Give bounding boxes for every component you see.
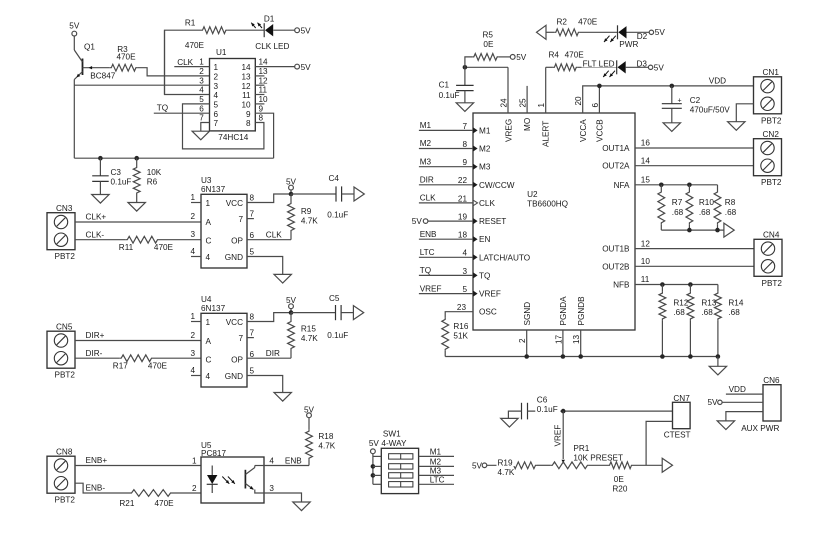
svg-text:CLK: CLK: [479, 199, 495, 208]
svg-text:11: 11: [242, 91, 251, 100]
resistor R10 .68: [686, 185, 714, 230]
svg-text:5V: 5V: [69, 21, 80, 30]
wire: [75, 340, 201, 342]
pin 15 NFA: [614, 176, 651, 190]
svg-text:CLK: CLK: [177, 58, 193, 67]
svg-text:6: 6: [250, 350, 255, 359]
svg-text:DIR+: DIR+: [86, 331, 105, 340]
resistor R15 4.7K: [288, 313, 319, 359]
resistor R7 .68: [658, 185, 684, 230]
node junction: [578, 354, 583, 359]
node junction: [670, 84, 675, 89]
svg-text:M1: M1: [430, 448, 442, 457]
wire: [580, 330, 582, 357]
capacitor C3 0.1uF: [92, 168, 131, 187]
wire: [671, 108, 673, 123]
ground: [128, 203, 145, 212]
svg-text:18: 18: [458, 231, 468, 240]
svg-text:6: 6: [591, 103, 600, 108]
svg-text:ENB: ENB: [285, 456, 302, 465]
svg-text:U2: U2: [527, 190, 538, 199]
svg-text:8: 8: [246, 119, 251, 128]
svg-text:PC817: PC817: [201, 449, 226, 458]
svg-text:CTEST: CTEST: [664, 430, 691, 439]
svg-text:VCCA: VCCA: [579, 119, 588, 142]
svg-text:OP: OP: [231, 355, 243, 364]
svg-text:2: 2: [214, 73, 219, 82]
wire pin8 to 5V: [247, 313, 291, 322]
wire: [419, 148, 473, 150]
power 5V: [371, 449, 376, 454]
pin 18: [458, 231, 478, 243]
wire: [527, 410, 672, 412]
svg-text:51K: 51K: [453, 331, 468, 340]
svg-text:PR1: PR1: [573, 444, 589, 453]
svg-text:PBT2: PBT2: [55, 371, 76, 380]
svg-text:AUX PWR: AUX PWR: [741, 424, 779, 433]
wire pin4 stub: [191, 375, 201, 377]
resistor R9 4.7K: [288, 194, 319, 240]
svg-text:M1: M1: [479, 126, 491, 135]
svg-text:2: 2: [190, 212, 195, 221]
wire: [255, 103, 264, 105]
power 5V: [649, 28, 665, 37]
svg-text:5V: 5V: [286, 178, 297, 187]
svg-text:3: 3: [199, 76, 204, 85]
wire: [201, 123, 210, 132]
svg-text:PBT2: PBT2: [761, 116, 782, 125]
svg-text:NFA: NFA: [614, 181, 630, 190]
svg-text:CLK+: CLK+: [86, 213, 107, 222]
svg-text:M2: M2: [430, 458, 442, 467]
svg-text:C5: C5: [329, 294, 340, 303]
pin 25 MO: [519, 98, 533, 131]
svg-text:23: 23: [457, 303, 467, 312]
pin 3: [462, 267, 477, 279]
resistor R21 470E: [119, 490, 174, 508]
connector CN3 PBT2: [47, 204, 75, 261]
wire: [419, 184, 473, 186]
svg-text:PBT2: PBT2: [55, 496, 76, 505]
svg-text:5: 5: [214, 101, 219, 110]
node junction: [597, 84, 602, 89]
svg-text:3: 3: [269, 484, 274, 493]
node DIR out: [266, 349, 280, 358]
svg-text:0E: 0E: [483, 40, 494, 49]
svg-text:CN1: CN1: [763, 68, 780, 77]
node junction: [688, 282, 693, 287]
svg-text:M2: M2: [479, 145, 491, 154]
svg-text:EN: EN: [479, 235, 490, 244]
wire pin4 stub: [191, 256, 201, 258]
port out: [353, 306, 363, 320]
wire: [273, 29, 295, 31]
wire: [646, 421, 672, 465]
svg-text:6: 6: [214, 110, 219, 119]
svg-text:5V: 5V: [655, 28, 666, 37]
pin 23 OSC: [457, 303, 497, 317]
label EN: [479, 235, 490, 244]
svg-text:M1: M1: [420, 121, 432, 130]
svg-text:74HC14: 74HC14: [218, 133, 248, 142]
ground: [274, 393, 291, 402]
pin 13 PGNDB: [572, 296, 586, 344]
svg-text:CLK LED: CLK LED: [255, 42, 289, 51]
svg-text:C3: C3: [111, 168, 122, 177]
svg-text:FLT LED: FLT LED: [583, 59, 615, 68]
pin 22: [458, 176, 478, 188]
wire VCCB: [598, 86, 600, 113]
svg-text:5V: 5V: [472, 461, 483, 470]
wire: [159, 239, 201, 241]
wire: [545, 67, 547, 113]
node CLK-: [86, 230, 105, 239]
svg-text:DIR-: DIR-: [86, 349, 103, 358]
wire: [507, 67, 509, 113]
connector CN2 PBT2: [754, 130, 782, 187]
svg-text:12: 12: [241, 82, 251, 91]
pin 10 OUT2B: [602, 257, 650, 271]
label LATCH/AUTO: [479, 253, 530, 262]
label CLK: [479, 199, 495, 208]
power 5V supply: [69, 21, 80, 36]
svg-text:VDD: VDD: [729, 385, 746, 394]
svg-text:1: 1: [199, 58, 204, 67]
wire pin1 stub: [191, 321, 201, 323]
svg-text:R4: R4: [549, 51, 560, 60]
resistor R8 .68: [714, 185, 737, 230]
svg-text:R19: R19: [498, 458, 513, 467]
svg-text:R7: R7: [672, 198, 683, 207]
svg-text:.68: .68: [725, 208, 737, 217]
label M3: [479, 163, 491, 172]
wire: [526, 330, 528, 357]
svg-text:8: 8: [250, 313, 255, 322]
svg-text:R14: R14: [728, 298, 743, 307]
svg-text:5V: 5V: [301, 26, 312, 35]
capacitor C1 0.1uF: [439, 81, 474, 101]
svg-text:4: 4: [206, 253, 211, 262]
wire: [661, 229, 724, 231]
svg-text:0.1uF: 0.1uF: [537, 405, 558, 414]
svg-text:5V: 5V: [301, 63, 312, 72]
resistor R6 10K: [133, 166, 162, 195]
svg-text:10: 10: [641, 257, 651, 266]
ground: [293, 502, 310, 511]
svg-text:0.1uF: 0.1uF: [327, 210, 348, 219]
svg-text:5V: 5V: [707, 398, 718, 407]
label RESET: [479, 217, 506, 226]
svg-text:9: 9: [462, 158, 467, 167]
optocoupler U3 6N137: [190, 176, 254, 268]
wire: [165, 30, 210, 94]
svg-text:4: 4: [206, 372, 211, 381]
wire: [172, 492, 201, 494]
svg-text:TQ: TQ: [420, 266, 431, 275]
svg-text:4.7K: 4.7K: [301, 334, 318, 343]
svg-text:CW/CCW: CW/CCW: [479, 181, 515, 190]
node junction: [660, 354, 665, 359]
svg-text:MO: MO: [523, 118, 532, 131]
svg-text:OUT2A: OUT2A: [602, 162, 630, 171]
svg-text:DIR: DIR: [420, 176, 434, 185]
wire: [717, 357, 719, 367]
ground: [709, 366, 726, 375]
svg-text:A: A: [206, 337, 212, 346]
label M2: [479, 145, 491, 154]
svg-text:7: 7: [250, 210, 255, 219]
svg-text:ENB-: ENB-: [86, 483, 106, 492]
ground: [456, 103, 473, 112]
svg-text:CLK-: CLK-: [86, 230, 105, 239]
node VDD: [709, 76, 726, 85]
svg-text:CN6: CN6: [763, 376, 780, 385]
wire: [726, 412, 763, 421]
node junction: [289, 192, 294, 197]
svg-text:.68: .68: [672, 208, 684, 217]
wire 5V rail to C4: [291, 193, 336, 195]
svg-text:CN3: CN3: [56, 204, 73, 213]
svg-text:TB6600HQ: TB6600HQ: [527, 199, 568, 208]
LED D2 PWR: [604, 25, 648, 49]
svg-text:C: C: [206, 355, 212, 364]
wire: [671, 86, 673, 104]
svg-text:TQ: TQ: [479, 271, 490, 280]
svg-text:16: 16: [641, 139, 651, 148]
wire: [165, 30, 202, 94]
label TQ: [479, 271, 490, 280]
wire pin6: [247, 239, 291, 241]
svg-text:M3: M3: [420, 157, 432, 166]
pin 14 OUT2A: [602, 156, 650, 170]
node ENB: [420, 230, 437, 239]
port PWR in: [537, 25, 547, 39]
power 5V: [286, 296, 297, 308]
svg-text:9: 9: [246, 110, 251, 119]
wire pin8 to 5V: [247, 194, 291, 203]
svg-text:6: 6: [250, 231, 255, 240]
wire: [290, 309, 292, 313]
svg-text:1: 1: [206, 318, 211, 327]
svg-text:3: 3: [462, 267, 467, 276]
svg-text:4: 4: [190, 247, 195, 256]
pin 8: [462, 140, 477, 152]
svg-text:LTC: LTC: [430, 476, 445, 485]
resistor R12 .68: [659, 285, 689, 357]
wire pin5 gnd: [247, 257, 283, 275]
svg-text:PBT2: PBT2: [55, 252, 76, 261]
wire: [589, 464, 608, 466]
node junction: [716, 354, 721, 359]
wire: [154, 112, 210, 114]
svg-text:3: 3: [190, 230, 195, 239]
node junction: [463, 65, 468, 70]
wire: [255, 84, 264, 86]
wire: [419, 465, 454, 467]
pin 1 ALERT: [537, 103, 551, 148]
svg-text:4.7K: 4.7K: [301, 216, 318, 225]
svg-text:RESET: RESET: [479, 217, 506, 226]
connector CN5 PBT2: [47, 322, 75, 379]
node junction: [561, 409, 566, 414]
svg-text:R16: R16: [453, 322, 468, 331]
wire OUT2B: [635, 265, 754, 267]
svg-text:R11: R11: [119, 243, 134, 252]
svg-text:M3: M3: [430, 467, 442, 476]
node M3: [430, 467, 442, 476]
pin 6 VCCB: [591, 103, 605, 143]
node LTC: [420, 248, 435, 257]
svg-text:12: 12: [641, 239, 651, 248]
power 5V: [707, 398, 722, 407]
wire: [419, 293, 473, 295]
svg-text:4-WAY: 4-WAY: [381, 439, 407, 448]
svg-text:TQ: TQ: [157, 103, 168, 112]
wire: [419, 455, 454, 457]
node junction: [98, 156, 103, 161]
wire: [373, 474, 381, 476]
wire: [290, 190, 292, 194]
svg-text:M3: M3: [479, 163, 491, 172]
svg-text:Q1: Q1: [84, 43, 95, 52]
svg-text:VREF: VREF: [420, 284, 442, 293]
svg-text:6: 6: [199, 104, 204, 113]
wire: [508, 411, 521, 418]
node junction: [524, 354, 529, 359]
wire: [255, 75, 264, 77]
svg-text:3: 3: [190, 349, 195, 358]
pin 2 SGND: [518, 302, 532, 343]
wire: [464, 91, 466, 103]
svg-text:GND: GND: [225, 372, 243, 381]
svg-text:CN2: CN2: [763, 130, 780, 139]
node CLK: [177, 58, 193, 67]
svg-text:CN5: CN5: [56, 322, 73, 331]
svg-text:U4: U4: [201, 295, 212, 304]
capacitor C6 0.1uF: [522, 403, 528, 420]
svg-text:24: 24: [500, 98, 509, 108]
wire: [153, 357, 201, 359]
svg-text:PBT2: PBT2: [761, 178, 782, 187]
svg-text:PGNDB: PGNDB: [577, 296, 586, 326]
power 5V: [295, 63, 311, 72]
svg-text:R18: R18: [318, 432, 333, 441]
power 5V: [648, 63, 664, 72]
svg-text:BC847: BC847: [90, 72, 115, 81]
svg-text:470E: 470E: [116, 53, 136, 62]
svg-text:PGNDA: PGNDA: [559, 296, 568, 326]
svg-text:4: 4: [462, 249, 467, 258]
svg-text:4: 4: [214, 91, 219, 100]
wire pin6: [247, 357, 291, 359]
svg-text:5V: 5V: [369, 439, 380, 448]
pin 21: [458, 194, 478, 206]
svg-text:12: 12: [259, 76, 269, 85]
svg-text:5: 5: [462, 285, 467, 294]
svg-text:10: 10: [259, 95, 269, 104]
wire: [255, 113, 273, 158]
node M3: [420, 157, 432, 166]
wire: [342, 193, 354, 195]
svg-text:0.1uF: 0.1uF: [439, 91, 460, 100]
pin 12 OUT1B: [602, 239, 650, 253]
wire pin7 stub: [247, 218, 254, 220]
node DIR+: [86, 331, 105, 340]
pin 20 VCCA: [574, 96, 588, 142]
svg-text:OUT1A: OUT1A: [602, 144, 630, 153]
label M1: [479, 126, 491, 135]
node junction: [687, 183, 692, 188]
svg-text:10K PRESET: 10K PRESET: [573, 454, 623, 463]
svg-text:R2: R2: [557, 18, 568, 27]
node junction: [715, 228, 720, 233]
svg-text:7: 7: [462, 122, 467, 131]
svg-text:SW1: SW1: [383, 430, 401, 439]
capacitor C4 0.1uF: [327, 174, 348, 219]
svg-text:R15: R15: [301, 325, 316, 334]
svg-text:5V: 5V: [654, 63, 665, 72]
node junction: [660, 282, 665, 287]
resistor R13 .68: [687, 285, 717, 357]
node VDD: [729, 385, 746, 394]
wire: [419, 274, 473, 276]
wire: [255, 94, 264, 96]
svg-text:CN8: CN8: [56, 447, 73, 456]
wire NFA: [635, 184, 718, 186]
svg-text:5V: 5V: [516, 53, 527, 62]
node VREF: [420, 284, 442, 293]
svg-text:R17: R17: [113, 362, 128, 371]
wire: [419, 166, 473, 168]
resistor R11 470E: [119, 236, 174, 252]
svg-text:13: 13: [259, 67, 269, 76]
svg-text:CLK: CLK: [266, 230, 282, 239]
wire: [75, 483, 130, 493]
ground: [717, 421, 734, 430]
wire: [537, 464, 551, 466]
wire: [372, 454, 374, 485]
svg-text:LATCH/AUTO: LATCH/AUTO: [479, 253, 530, 262]
svg-text:PWR: PWR: [619, 40, 638, 49]
node CLK+: [86, 213, 107, 222]
svg-text:CN4: CN4: [763, 231, 780, 240]
wire: [445, 312, 473, 318]
connector CN7 CTEST: [664, 394, 691, 439]
svg-text:4: 4: [190, 366, 195, 375]
svg-text:5V: 5V: [412, 217, 423, 226]
wire: [580, 31, 618, 33]
svg-text:4: 4: [199, 86, 204, 95]
node M2: [420, 139, 432, 148]
wire 5V rail to C5: [291, 312, 336, 314]
svg-text:OUT2B: OUT2B: [602, 262, 630, 271]
resistor R18 4.7K: [306, 418, 336, 466]
svg-text:R5: R5: [483, 31, 494, 40]
svg-text:DIR: DIR: [266, 349, 280, 358]
label FLT LED: [582, 59, 617, 68]
power 5V: [304, 405, 315, 417]
connector CN6 AUX PWR: [741, 376, 781, 433]
svg-text:1: 1: [190, 312, 195, 321]
wire: [419, 129, 473, 131]
svg-text:7: 7: [250, 329, 255, 338]
label VREF: [479, 290, 501, 299]
ground: [501, 418, 518, 427]
svg-text:5: 5: [250, 248, 255, 257]
node CLK: [420, 194, 436, 203]
svg-text:.68: .68: [673, 308, 685, 317]
svg-text:470E: 470E: [565, 51, 585, 60]
